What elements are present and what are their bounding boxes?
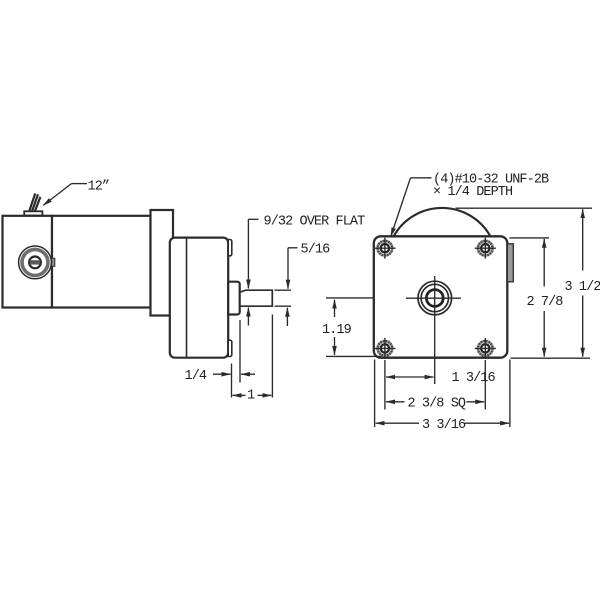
dim 9/32: upper arrow line [247,219,249,288]
plate extension line right [509,360,511,428]
top corner boss tab [228,240,232,256]
small tab on rear cap seam [51,258,55,266]
dim 3 1/2 [582,209,584,270]
dim 1/4: left arrow [213,373,231,375]
svg-text:2 7/8: 2 7/8 [527,295,564,310]
leader for 12 inch leads [43,184,87,206]
shaft bottom extension line [275,305,292,307]
extension line shaft end [271,315,273,398]
svg-text:× 1/4 DEPTH: × 1/4 DEPTH [433,185,513,200]
wire leads (3 slanted lines) [29,194,41,213]
extension line bottom right shared [511,357,591,359]
gearbox housing [170,238,228,358]
dim 1: line with two arrows [233,394,246,396]
terminal tab on right edge [507,244,513,282]
extension line boss face [239,320,241,383]
callout leader for tapped holes [411,177,432,179]
hole extension line lower-right [484,360,486,410]
output shaft circles [418,281,452,315]
svg-text:3 1/2: 3 1/2 [565,280,600,295]
dim 5/16: leader elbow [288,247,298,249]
motor rear end cap [3,216,53,308]
plate extension line left [374,360,376,428]
hole extension line lower-left [384,360,386,410]
dim 5/16: lower arrow line [286,308,288,326]
svg-text:9/32 OVER FLAT: 9/32 OVER FLAT [264,215,366,230]
motor body [52,216,151,308]
dim 1.19 extension line from lower hole [326,355,381,357]
svg-text:1: 1 [247,389,255,404]
dim 1.19 upper arrow [334,300,336,317]
dim 1.19 lower arrow [334,337,336,355]
tapped hole top-right [475,238,496,259]
horizontal center line through shaft [406,297,461,299]
dim 2 3/8 SQ [386,401,405,403]
svg-text:1.19: 1.19 [322,323,352,338]
shaft boss [228,282,240,315]
svg-text:12”: 12” [88,180,110,195]
shaft top extension line [275,289,292,291]
mounting face plate [374,236,508,357]
wire grommet tab [24,211,42,215]
tapped hole bottom-right [475,338,496,359]
svg-text:5/16: 5/16 [301,243,331,258]
bottom corner boss tab [228,340,232,356]
vertical center line [434,276,436,384]
flange plate between motor and gearbox [151,210,174,316]
extension line plate top right [510,237,550,239]
dim 5/16: upper arrow line [287,248,289,289]
svg-text:1 3/16: 1 3/16 [452,371,496,386]
output shaft (side view) [240,290,272,306]
dim 1.19 extension line from shaft center [326,297,374,299]
extension line gearbox face [231,364,233,398]
svg-text:1/4: 1/4 [185,369,207,384]
dim 1/4: right arrow [241,373,255,375]
dim 9/32: leader elbow [248,218,258,220]
dim 3 3/16 [376,422,419,424]
tapped hole top-left [374,238,395,259]
tapped hole bottom-left [374,338,395,359]
dim 2 7/8 [543,239,545,287]
motor body arc behind plate [394,208,491,236]
extension line motor arc top [456,207,593,209]
svg-text:3 3/16: 3 3/16 [422,418,466,433]
dim 9/32: lower arrow line [247,308,249,326]
bearing cap circles with screw slot [19,246,52,279]
gearbox cover seam line [186,239,188,357]
svg-text:2 3/8 SQ: 2 3/8 SQ [408,397,466,412]
dim 1 3/16 [386,376,434,378]
